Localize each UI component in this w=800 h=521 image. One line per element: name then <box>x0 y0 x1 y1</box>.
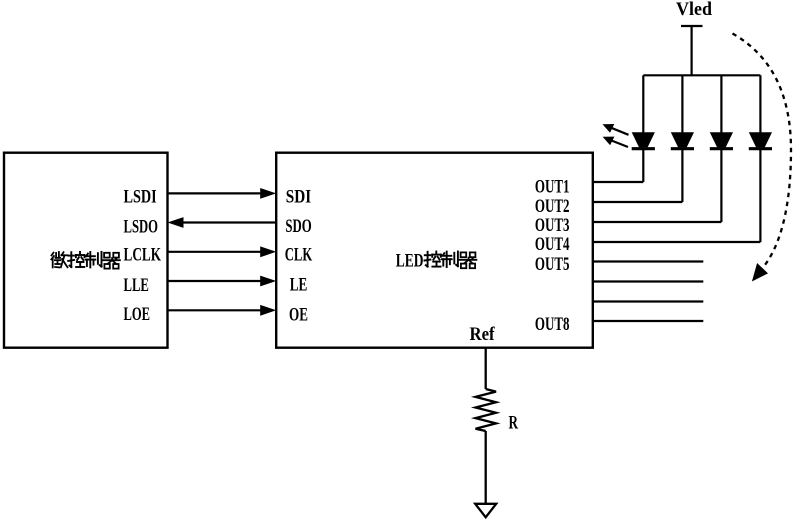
svg-text:LLE: LLE <box>124 275 149 296</box>
svg-text:LED: LED <box>396 250 424 271</box>
svg-text:OE: OE <box>289 305 308 326</box>
svg-text:LOE: LOE <box>124 304 151 325</box>
svg-text:LCLK: LCLK <box>124 245 162 266</box>
svg-text:LSDI: LSDI <box>124 187 157 208</box>
svg-text:CLK: CLK <box>285 244 313 265</box>
svg-text:Ref: Ref <box>470 324 496 345</box>
svg-text:OUT5: OUT5 <box>535 254 570 275</box>
svg-text:Vled: Vled <box>676 0 712 20</box>
svg-text:OUT1: OUT1 <box>535 177 570 198</box>
svg-text:LSDO: LSDO <box>124 216 159 237</box>
svg-text:OUT4: OUT4 <box>535 234 570 255</box>
svg-text:R: R <box>509 413 519 434</box>
svg-text:SDO: SDO <box>285 216 311 237</box>
svg-text:OUT8: OUT8 <box>535 314 570 335</box>
svg-text:SDI: SDI <box>286 187 311 208</box>
svg-text:LE: LE <box>290 274 308 295</box>
